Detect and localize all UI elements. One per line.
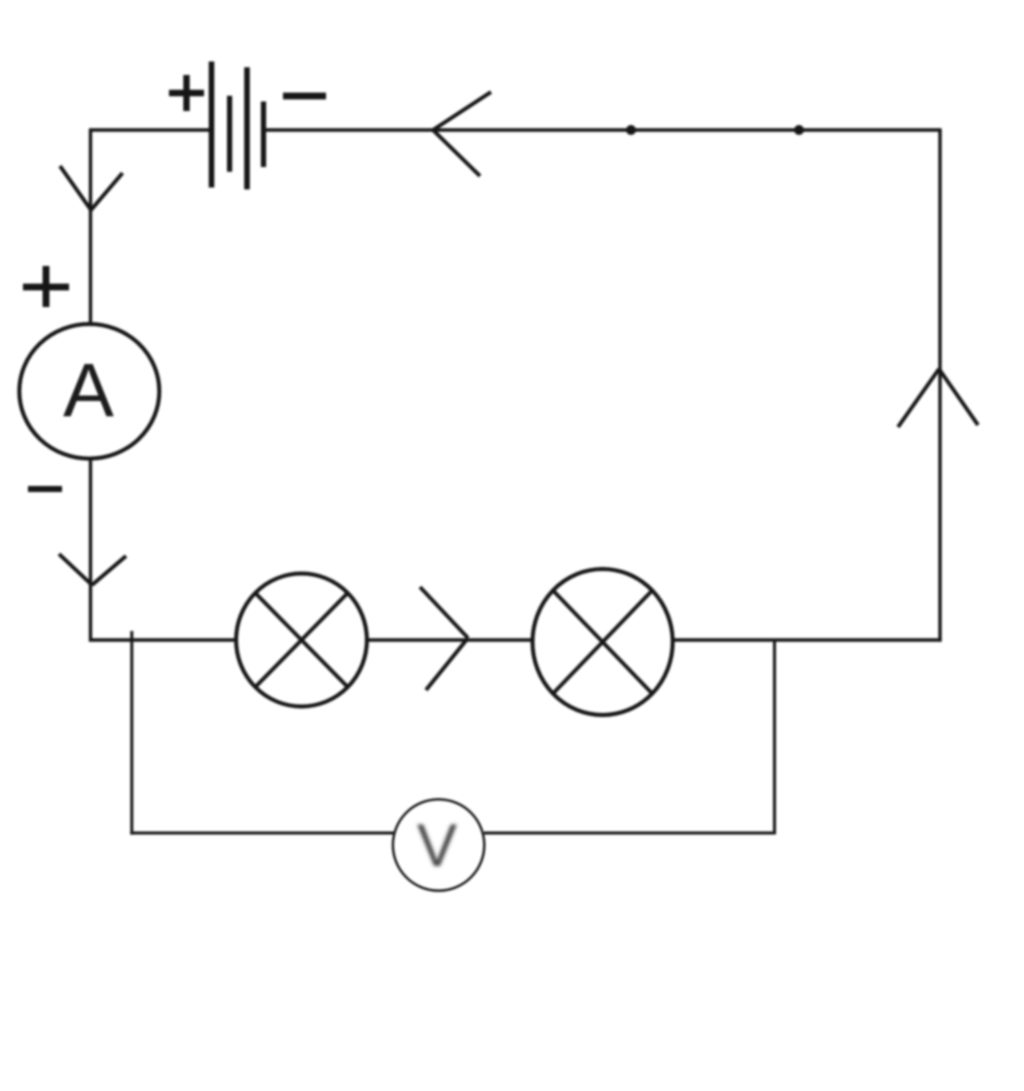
ammeter A1 circle <box>19 324 159 459</box>
wire top-left horizontal segment <box>91 128 210 131</box>
wire left vertical lower segment <box>89 458 92 642</box>
wire voltmeter tap right vertical <box>773 640 776 835</box>
wire left vertical upper segment <box>89 128 92 325</box>
svg-text:V: V <box>417 812 457 879</box>
wire voltmeter horizontal right <box>484 832 776 835</box>
current arrow on right wire (pointing up) <box>898 369 978 427</box>
battery B1 plate long <box>244 67 250 189</box>
current arrow on left wire upper (pointing down) <box>60 166 123 210</box>
label minus below ammeter <box>28 486 62 492</box>
label plus above ammeter <box>23 266 69 307</box>
wire top-right horizontal segment <box>265 128 940 131</box>
junction dot on top wire (left) <box>626 125 636 135</box>
lamp L1 cross <box>255 593 347 687</box>
lamp L1 circle <box>236 574 367 707</box>
lamp L2 circle <box>533 569 673 715</box>
wire bottom segment 1 <box>89 638 236 641</box>
wire right vertical <box>938 128 941 641</box>
wire voltmeter horizontal left <box>130 832 394 835</box>
current arrow on top wire (pointing left) <box>433 92 491 176</box>
current arrow on bottom wire (pointing right) <box>420 587 468 690</box>
label minus at battery <box>283 93 326 100</box>
current arrow on left wire lower (pointing down) <box>59 554 126 585</box>
wire bottom segment 3 <box>672 638 942 641</box>
battery B1 plate short negative <box>261 102 266 168</box>
voltmeter V1 circle <box>393 799 484 890</box>
wire voltmeter tap left vertical <box>130 631 133 835</box>
label plus at battery <box>169 75 204 111</box>
wire bottom segment 2 <box>367 638 533 641</box>
lamp L2 cross <box>553 590 652 693</box>
svg-text:A: A <box>63 349 114 434</box>
battery B1 plate short <box>227 96 232 172</box>
battery B1 plate long positive <box>209 62 215 188</box>
junction dot on top wire (right) <box>794 125 804 135</box>
